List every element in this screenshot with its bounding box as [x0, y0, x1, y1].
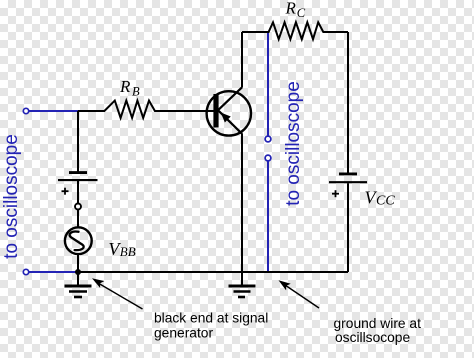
svg-text:to oscilloscope: to oscilloscope: [283, 81, 304, 206]
svg-text:BB: BB: [120, 244, 136, 259]
svg-text:R: R: [119, 77, 131, 96]
svg-text:ground wire at: ground wire at: [334, 316, 422, 331]
svg-text:black end at signal: black end at signal: [154, 311, 268, 326]
svg-text:C: C: [297, 6, 306, 20]
svg-text:R: R: [285, 0, 297, 17]
svg-text:CC: CC: [376, 194, 395, 209]
svg-text:oscillsocope: oscillsocope: [335, 330, 410, 345]
svg-text:generator: generator: [154, 326, 213, 341]
svg-text:to oscilloscope: to oscilloscope: [1, 134, 22, 259]
svg-text:B: B: [132, 85, 140, 99]
